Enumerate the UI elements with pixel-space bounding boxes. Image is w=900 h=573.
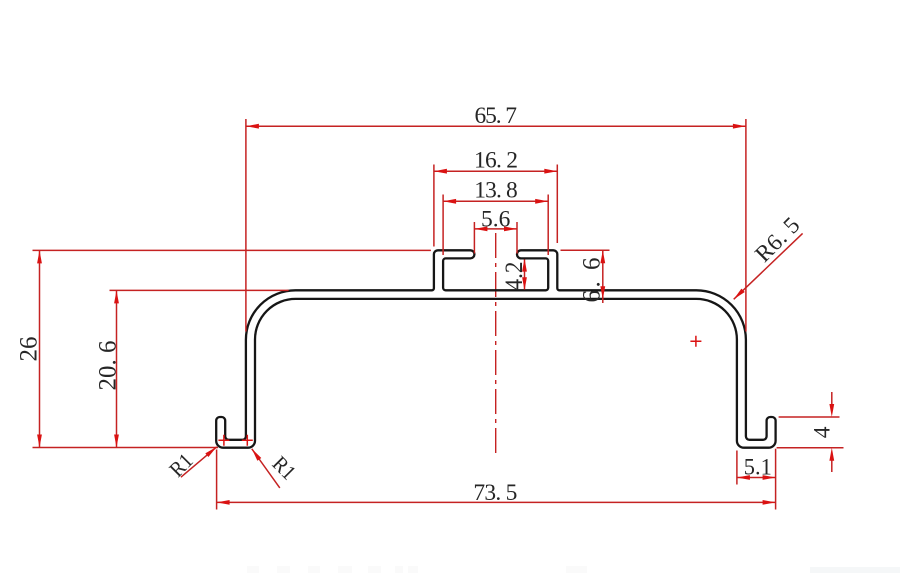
dimension 4 extension lines (779, 416, 840, 418)
centerline (495, 233, 497, 457)
dimension 65.7 line (246, 125, 746, 127)
dimension 13.8 extension lines (442, 195, 444, 256)
svg-text:73. 5: 73. 5 (473, 480, 517, 506)
center mark R1 left arc (218, 435, 229, 446)
svg-text:13. 8: 13. 8 (474, 178, 518, 204)
radius leader R1 right (252, 449, 280, 488)
radius leader R6.5 (734, 233, 803, 299)
dimension 5.6 extension lines (473, 222, 475, 254)
svg-text:4: 4 (810, 426, 836, 438)
dimension 20.6 line (116, 290, 118, 447)
dimension 4 line (arrows outside) (831, 392, 833, 405)
svg-text:16. 2: 16. 2 (474, 147, 518, 173)
dimension 6.6 line (602, 250, 604, 303)
dimension 13.8 line (443, 200, 548, 202)
dimension 73.5 line (217, 501, 776, 503)
dimension 16.2 extension lines (433, 165, 435, 247)
radius leader R1 left (181, 447, 217, 477)
svg-text:5.1: 5.1 (744, 455, 772, 481)
svg-text:4.2: 4.2 (501, 262, 528, 291)
svg-text:26: 26 (16, 337, 43, 362)
center mark R1 right arc (242, 435, 253, 446)
faint watermark remnants at bottom edge (247, 566, 259, 573)
aluminum profile cross-section outline (216, 250, 775, 447)
dimension 26 extension lines (33, 249, 431, 251)
dimension 65.7 extension lines (245, 119, 247, 332)
dimension 26 line (39, 250, 41, 447)
dimension 4.2 line (524, 260, 526, 290)
dimension 5.6 line (474, 228, 517, 230)
dimension 73.5 extension lines (216, 450, 218, 510)
center mark R6.5 arc (690, 336, 701, 347)
dimension 6.6 extension line (561, 249, 610, 251)
dimension 16.2 line (434, 170, 557, 172)
svg-text:65. 7: 65. 7 (474, 103, 517, 129)
dimension 5.1 line (737, 477, 776, 479)
svg-text:20. 6: 20. 6 (95, 341, 122, 391)
svg-text:5.6: 5.6 (481, 206, 511, 232)
dimension 20.6 extension line (110, 289, 289, 291)
dimension 5.1 extension line (736, 451, 738, 485)
